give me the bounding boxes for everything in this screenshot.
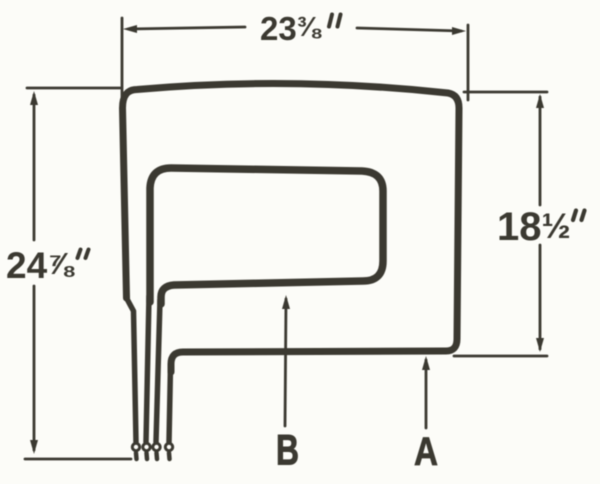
svg-text:24⅞: 24⅞ — [6, 245, 75, 286]
svg-text:B: B — [276, 427, 299, 475]
wire 2 end loop terminal — [143, 443, 150, 450]
top dimension left extension line — [121, 18, 124, 97]
right dimension bottom extension line — [454, 355, 547, 358]
left dimension line lower segment — [33, 286, 36, 450]
wire 1 end loop terminal — [132, 443, 139, 450]
svg-text:23⅜: 23⅜ — [260, 10, 322, 47]
arrowhead right dim up — [536, 94, 544, 108]
right dimension line upper segment — [539, 97, 542, 205]
wire 2 end stub — [144, 453, 149, 459]
arrowhead left dim up — [30, 91, 38, 105]
top dimension line right segment — [357, 28, 461, 31]
top dimension line left segment — [129, 27, 245, 29]
svg-text:A: A — [414, 430, 438, 474]
top dimension right extension line — [467, 25, 470, 100]
pointer arrow B shaft — [285, 299, 286, 426]
wire 4 end stub — [167, 453, 172, 459]
inner loop lead wire 2 — [146, 296, 149, 442]
right dimension top extension line — [464, 91, 547, 94]
left dimension top extension line — [27, 87, 120, 90]
outer loop lead wire 4 — [169, 366, 171, 442]
arrowhead top dim left — [123, 25, 137, 33]
arrowhead left dim down — [30, 440, 38, 454]
outer loop lead wire 1 (left, with jog) — [127, 293, 137, 442]
left dimension line upper segment — [33, 95, 36, 240]
wire 3 end stub — [154, 453, 159, 459]
left dimension bottom extension line — [25, 458, 131, 461]
outer heating loop (element A) — [123, 84, 460, 372]
inner loop lead wire 3 — [156, 300, 160, 442]
svg-text:18½: 18½ — [497, 205, 571, 249]
wire 1 end stub — [134, 453, 139, 459]
inch mark ticks for 18 1/2 label — [573, 211, 576, 221]
arrowhead pointer B — [282, 295, 290, 309]
arrowhead pointer A — [422, 356, 430, 370]
arrowhead right dim down — [536, 338, 544, 352]
inch mark ticks for 23 3/8 label — [329, 15, 332, 27]
inch mark ticks for 24 7/8 label — [78, 250, 81, 259]
right dimension line lower segment — [539, 245, 542, 349]
wire 4 end loop terminal — [165, 443, 172, 450]
arrowhead top dim right — [452, 27, 466, 35]
wire 3 end loop terminal — [153, 443, 160, 450]
inner heating loop (element B) — [150, 168, 383, 304]
pointer arrow A shaft — [425, 360, 428, 428]
